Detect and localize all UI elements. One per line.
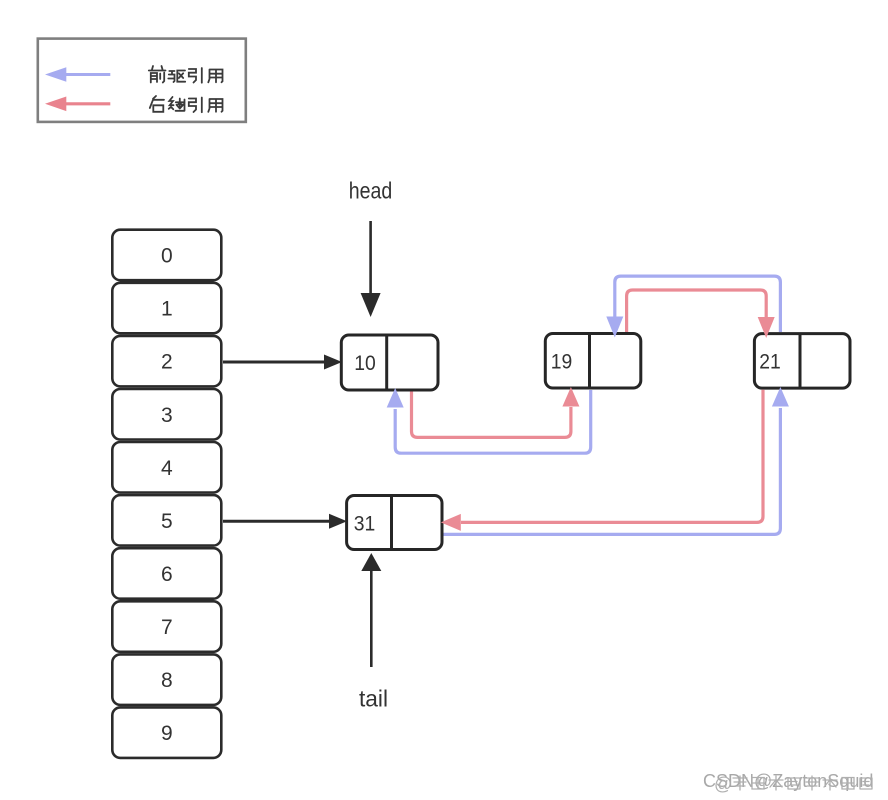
svg-text:@: @ xyxy=(714,774,732,794)
svg-text:4: 4 xyxy=(161,457,173,480)
svg-text:2: 2 xyxy=(161,351,173,374)
svg-text:5: 5 xyxy=(161,510,173,533)
svg-text:3: 3 xyxy=(161,404,173,427)
svg-text:9: 9 xyxy=(161,722,173,745)
svg-text:10: 10 xyxy=(354,352,376,375)
svg-text:7: 7 xyxy=(161,616,173,639)
svg-text:6: 6 xyxy=(161,563,173,586)
svg-text:21: 21 xyxy=(759,351,781,374)
svg-text:tail: tail xyxy=(359,686,388,712)
svg-text:1: 1 xyxy=(161,298,173,321)
svg-text:8: 8 xyxy=(161,669,173,692)
svg-text:19: 19 xyxy=(551,351,573,374)
svg-text:0: 0 xyxy=(161,245,173,268)
svg-text:31: 31 xyxy=(354,513,376,536)
svg-text:head: head xyxy=(349,177,393,203)
